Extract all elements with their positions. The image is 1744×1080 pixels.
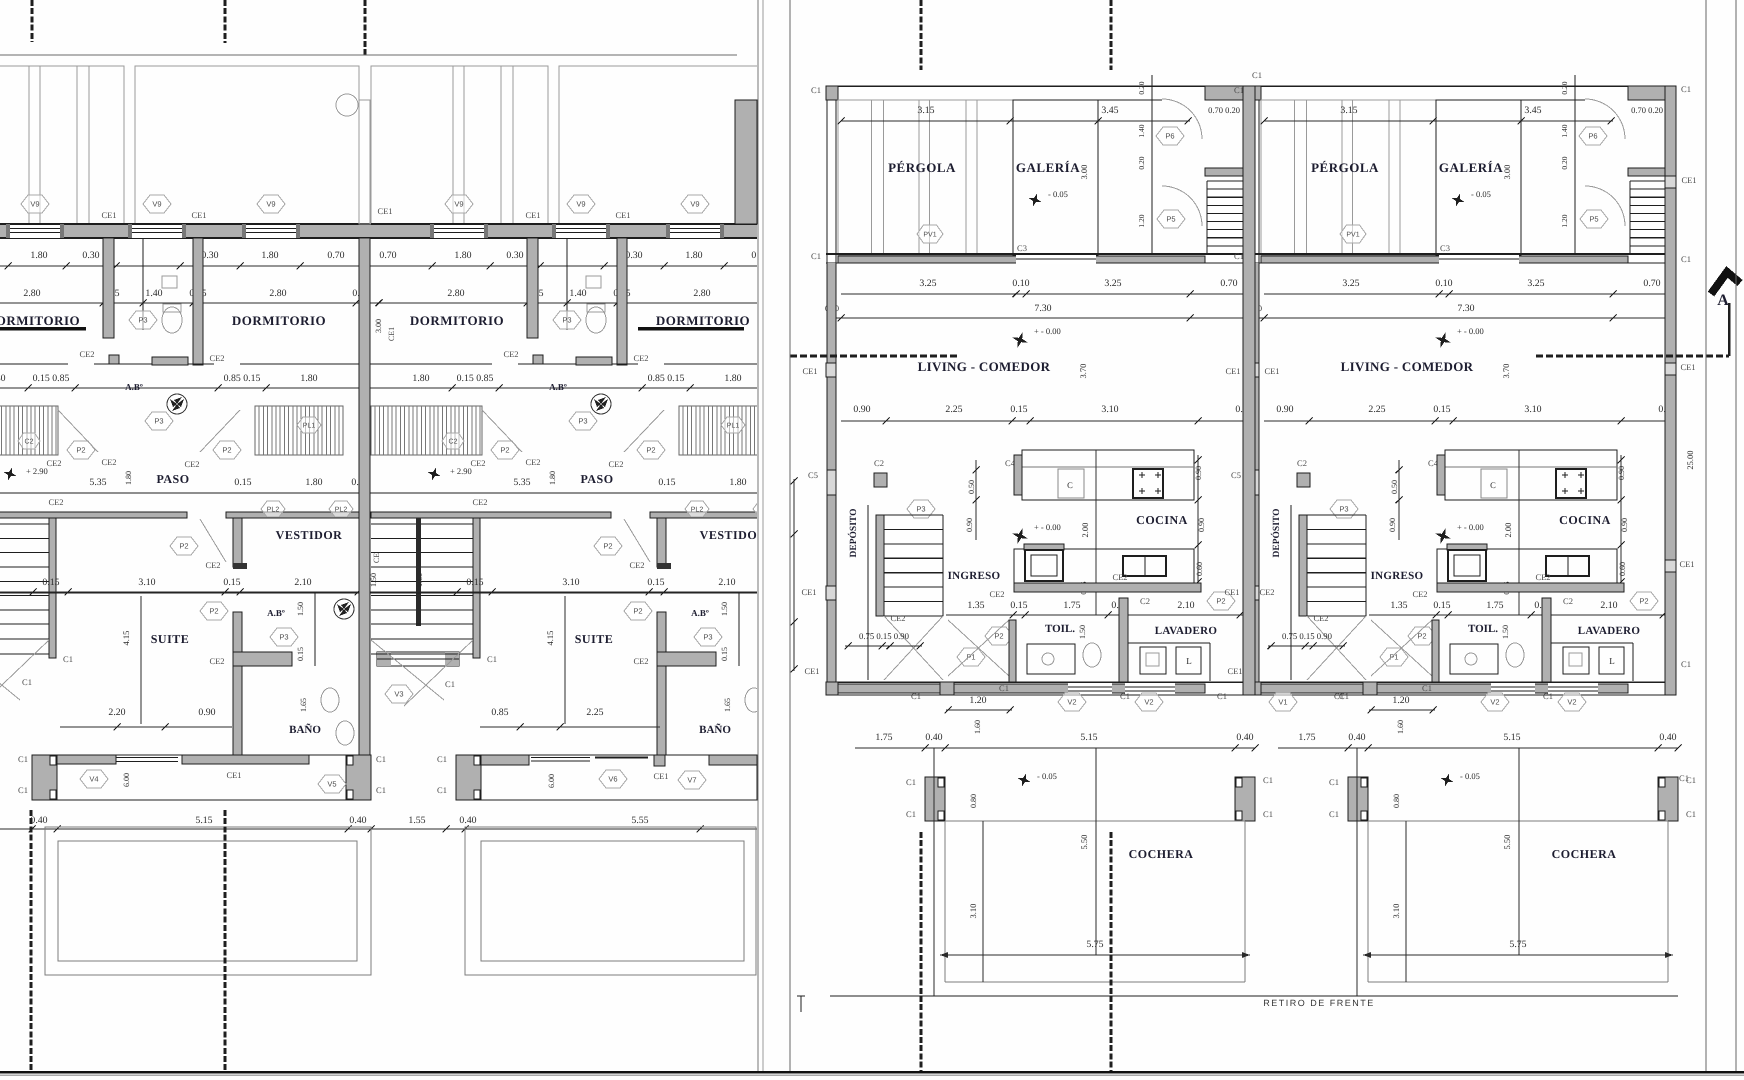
svg-text:0.15: 0.15 [466,577,483,588]
svg-text:1.80: 1.80 [548,471,557,485]
left dim column [793,479,795,671]
tag P5 [1157,210,1185,228]
vanity bar [657,652,716,666]
window V9 [131,225,183,238]
svg-text:3.25: 3.25 [1527,278,1544,289]
tag P3 [694,628,722,646]
level star [1010,526,1030,546]
svg-text:L: L [1609,656,1615,666]
svg-text:P3: P3 [916,505,925,514]
svg-text:0.90: 0.90 [1276,404,1293,415]
stair treads [1307,514,1366,516]
pergola beam [1294,100,1296,255]
rear wall seg [57,755,116,764]
dim ext line [1197,455,1199,585]
svg-text:DEPÓSITO: DEPÓSITO [847,509,859,558]
window glazing [245,228,297,230]
svg-text:3.00: 3.00 [1502,165,1512,180]
svg-text:DEPÓSITO: DEPÓSITO [1270,509,1282,558]
outer wall edge [835,100,837,695]
svg-text:DORMITORIO: DORMITORIO [0,313,80,328]
svg-text:C1: C1 [1329,809,1339,819]
svg-text:1.80: 1.80 [305,477,322,488]
svg-text:CE1: CE1 [1227,666,1242,676]
svg-text:2.80: 2.80 [693,288,710,299]
svg-text:0.90: 0.90 [1617,466,1626,480]
laundry box [1599,647,1624,674]
svg-text:V2: V2 [1490,698,1499,707]
svg-text:P2: P2 [76,446,85,455]
wall bar [371,512,611,518]
bottom window [1068,683,1112,694]
floor line [0,492,371,494]
svg-text:0.90: 0.90 [853,404,870,415]
svg-text:1.65: 1.65 [299,698,308,712]
bottom window2 [1548,683,1598,694]
dim line arrows [855,747,1255,749]
window V9 [669,225,721,238]
window jamb [606,224,610,238]
svg-text:PL1: PL1 [303,423,316,430]
svg-text:1.50: 1.50 [1501,625,1510,639]
svg-text:5.35: 5.35 [89,477,106,488]
dim line [0,302,371,304]
stair wall [876,515,884,616]
svg-text:V1: V1 [1278,698,1287,707]
tag PL2 [329,501,353,517]
entry stair side [1206,181,1208,254]
svg-text:A.Bº: A.Bº [549,382,567,392]
svg-text:PL2: PL2 [691,507,704,514]
tag V9 [567,195,595,213]
counter front line [1445,466,1617,468]
terrace roof outline [559,66,783,224]
svg-text:CE1: CE1 [1679,559,1694,569]
stair shaft line [76,66,78,224]
door swing P5 [1585,186,1625,226]
window jamb [60,224,64,238]
svg-text:CE2: CE2 [1412,589,1427,599]
svg-text:C1: C1 [1263,775,1273,785]
level star [1010,330,1030,350]
left sheet edge2 [762,0,764,1072]
svg-text:+ 2.90: + 2.90 [26,466,48,476]
pillar [346,755,371,800]
window glazing [245,232,297,234]
wall stub [1297,473,1310,487]
fan symbol [167,394,187,414]
retiro tick [797,995,805,997]
svg-text:7.30: 7.30 [1034,303,1051,314]
svg-text:C5: C5 [1231,470,1241,480]
bottom wall line [826,694,1250,696]
door swing P6 [1585,99,1625,139]
level star [1015,771,1033,789]
svg-text:P2: P2 [1216,597,1225,606]
svg-text:V9: V9 [576,200,585,209]
bottom wall line [1249,681,1673,683]
front door gap [1016,255,1096,264]
svg-text:0.15: 0.15 [658,477,675,488]
stair shaft line [463,66,465,224]
tag P2 lavadero [1207,592,1235,610]
patio inner [58,841,357,961]
tag PL2 [261,501,285,517]
svg-text:L: L [1186,656,1192,666]
svg-text:COCHERA: COCHERA [1552,847,1617,861]
pergola beam [1341,100,1343,255]
top wall line [826,85,1250,87]
stair lower treads [371,623,473,625]
svg-text:C1: C1 [999,683,1009,693]
corner block [1249,682,1261,695]
svg-text:0.40: 0.40 [30,815,47,826]
level star [1449,191,1467,209]
dim line [480,726,660,728]
svg-text:C2: C2 [874,458,884,468]
room divider [0,363,68,365]
section line A right [1536,355,1729,358]
pillar [456,755,481,800]
svg-text:0.20: 0.20 [1560,156,1569,169]
outer wall [827,263,836,695]
svg-text:1.20: 1.20 [969,695,986,706]
window jamb [484,224,488,238]
dim line [0,828,757,830]
svg-text:0.15: 0.15 [1010,600,1027,611]
svg-text:0.30: 0.30 [506,250,523,261]
wall bar [0,512,187,518]
svg-text:0.15 0.85: 0.15 0.85 [457,373,494,384]
stove [1133,469,1163,498]
svg-text:5.35: 5.35 [513,477,530,488]
svg-text:+ - 0.00: + - 0.00 [1034,522,1061,532]
passage window [377,652,459,666]
dim ext 2.00 [1095,450,1097,615]
svg-text:CE1: CE1 [802,366,817,376]
vestidor wall [657,518,666,567]
washer [1563,647,1589,674]
door swing [948,620,1009,676]
svg-text:C1: C1 [18,754,28,764]
window jamb [552,224,556,238]
svg-text:P2: P2 [994,632,1003,641]
door swing [624,519,650,562]
svg-text:CE2: CE2 [101,457,116,467]
svg-text:P3: P3 [1339,505,1348,514]
wall stub [874,473,887,487]
window glazing [9,232,61,234]
svg-text:1.50: 1.50 [1078,625,1087,639]
svg-text:CE1: CE1 [387,327,396,341]
top boundary line [0,54,737,56]
svg-text:CE2: CE2 [205,560,220,570]
svg-text:3.00: 3.00 [1079,165,1089,180]
stair wall [1299,515,1307,616]
svg-text:COCINA: COCINA [1136,513,1188,527]
svg-text:1.80: 1.80 [729,477,746,488]
svg-text:P6: P6 [1165,132,1174,141]
svg-text:1.75: 1.75 [1063,600,1080,611]
tag V2 [1558,693,1586,711]
room divider [94,363,214,365]
svg-text:P2: P2 [500,446,509,455]
svg-text:GALERÍA: GALERÍA [1016,160,1080,175]
svg-text:CE1: CE1 [653,771,668,781]
window glazing [669,232,721,234]
bottom window2 lines [1125,686,1175,688]
laundry box [1176,647,1201,674]
section bar [223,0,226,43]
svg-text:1.50: 1.50 [296,602,305,616]
toil wall [1009,620,1016,682]
svg-text:P5: P5 [1166,215,1175,224]
svg-text:0.60: 0.60 [1195,562,1204,576]
corner block [1363,682,1377,695]
svg-text:PV1: PV1 [1346,232,1359,239]
window jamb [296,224,300,238]
svg-text:1.40: 1.40 [1137,124,1146,137]
tag P3 [129,311,157,329]
fan symbol [591,394,611,414]
svg-text:0.30: 0.30 [201,250,218,261]
entry mid wall [1628,168,1673,176]
unit 2 ground-floor [1224,75,1696,996]
stair diag [371,640,444,700]
svg-text:C3: C3 [1440,243,1450,253]
wall bar [650,512,795,518]
front wall [1261,256,1628,263]
svg-text:0.85 0.15: 0.85 0.15 [648,373,685,384]
window glazing [131,232,183,234]
svg-text:RETIRO DE FRENTE: RETIRO DE FRENTE [1263,998,1375,1008]
tag P6 [1156,127,1184,145]
svg-text:0.70: 0.70 [379,250,396,261]
svg-text:CE2: CE2 [79,349,94,359]
svg-text:C1: C1 [376,785,386,795]
cochera bottom [945,981,1245,983]
door swing [1371,620,1432,676]
dim ext line [975,460,977,540]
svg-text:P3: P3 [279,633,288,642]
svg-text:VESTIDOR: VESTIDOR [276,528,343,542]
closet hatch [0,406,58,455]
pergola box [1261,100,1436,255]
window glazing [131,228,183,230]
dim line [0,387,371,389]
svg-text:1.50: 1.50 [720,602,729,616]
svg-text:DORMITORIO: DORMITORIO [232,313,326,328]
section bar [30,0,33,42]
svg-text:7.30: 7.30 [1457,303,1474,314]
svg-text:2.25: 2.25 [1368,404,1385,415]
terrace roof outline [0,66,124,224]
bottom wall line [1249,694,1673,696]
svg-text:CE1: CE1 [804,666,819,676]
bottom street line [0,1071,1744,1074]
svg-text:2.00: 2.00 [1503,523,1513,538]
mid band [1437,583,1624,592]
svg-text:CE2: CE2 [209,656,224,666]
svg-text:P1: P1 [1389,653,1398,662]
svg-text:6.00: 6.00 [547,774,556,788]
window jamb [182,224,186,238]
dim ext line [1398,460,1400,540]
pergola beam [1352,100,1354,255]
C box [1481,469,1507,498]
svg-text:3.25: 3.25 [1342,278,1359,289]
dim line [371,265,795,267]
svg-text:PL1: PL1 [727,423,740,430]
ext line [1518,748,1520,955]
ext line [933,748,935,996]
svg-text:+ - 0.00: + - 0.00 [1457,326,1484,336]
svg-text:0.15: 0.15 [42,577,59,588]
cochera top line [945,820,1245,822]
svg-text:3.10: 3.10 [1524,404,1541,415]
window glazing [433,228,485,230]
tag V3 [809,685,837,703]
svg-text:5.15: 5.15 [1503,732,1520,743]
svg-text:0.10: 0.10 [1435,278,1452,289]
tag P2 [170,537,198,555]
bottom window lines [1491,686,1535,688]
svg-text:CE2: CE2 [525,457,540,467]
tag V2 [1135,693,1163,711]
dim ext line [140,596,142,724]
tag V9 [21,195,49,213]
mini dim [1369,709,1435,711]
svg-text:V2: V2 [1567,698,1576,707]
tag C2 [18,433,40,449]
stair shaft line [39,66,41,224]
bath wall [738,593,740,666]
svg-text:CE2: CE2 [633,353,648,363]
tag P2 [213,441,241,459]
room divider [371,363,492,365]
svg-text:C1: C1 [1686,809,1696,819]
mid band [1014,583,1201,592]
svg-text:P2: P2 [603,542,612,551]
svg-text:CE1: CE1 [801,587,816,597]
svg-text:0.70 0.20: 0.70 0.20 [1208,105,1240,115]
tag P3 [553,311,581,329]
svg-text:P3: P3 [703,633,712,642]
svg-text:CE2: CE2 [472,497,487,507]
svg-text:SUITE: SUITE [151,632,190,646]
wall joint [1249,363,1259,377]
svg-text:0.40: 0.40 [1236,732,1253,743]
rear wall seg [182,755,309,764]
svg-text:2.20: 2.20 [108,707,125,718]
kitchen counter [1445,450,1617,500]
svg-text:CE2: CE2 [890,613,905,623]
counter end [1437,455,1445,495]
bottom window [1491,683,1535,694]
wall joint [826,586,836,600]
tag V2 [1058,693,1086,711]
fridge top bar [1024,544,1064,550]
svg-text:1.65: 1.65 [723,698,732,712]
svg-text:1.80: 1.80 [261,250,278,261]
dim ext 2.00 [1518,450,1520,615]
svg-text:4.15: 4.15 [121,631,131,646]
svg-text:C1: C1 [1120,691,1130,701]
entry stair [1207,180,1247,182]
tag P2 [985,627,1013,645]
pergola beam [883,100,885,255]
svg-text:PL2: PL2 [335,507,348,514]
front wall line [826,253,1250,255]
svg-text:1.80: 1.80 [124,471,133,485]
stair wall [473,518,480,658]
right sheet edge [1705,0,1707,1072]
svg-text:C1: C1 [1422,683,1432,693]
bidet [760,721,778,745]
dim line [841,293,1245,295]
pillar [32,755,57,800]
svg-text:V5: V5 [327,780,336,789]
svg-text:2.25: 2.25 [945,404,962,415]
toil wall [1432,620,1439,682]
svg-text:CE2: CE2 [48,497,63,507]
passage window [801,652,883,666]
pergola beam [1306,100,1308,255]
tag V9 [445,195,473,213]
patio outer [465,827,756,975]
svg-text:1.80: 1.80 [454,250,471,261]
top wall line [1249,99,1585,101]
front wall line [1249,253,1673,255]
svg-text:V9: V9 [454,200,463,209]
bath toilet [586,307,606,333]
pillar [925,777,945,821]
svg-text:0.40: 0.40 [1659,732,1676,743]
svg-text:0.20: 0.20 [1137,156,1146,169]
stair rail [416,518,421,626]
stair diag [0,640,49,706]
outer wall edge [1249,100,1251,695]
svg-text:1.60: 1.60 [1396,720,1405,734]
wall stub [109,355,119,364]
svg-text:C1: C1 [1329,777,1339,787]
svg-text:V4: V4 [89,775,98,784]
section line A [790,355,958,358]
tag P2 [200,602,228,620]
lavadero counter line [1551,642,1633,644]
svg-text:2.80: 2.80 [269,288,286,299]
svg-text:C1: C1 [1234,85,1244,95]
closet hatch [371,406,482,455]
svg-text:0.70: 0.70 [1220,278,1237,289]
tag PV1 [917,225,943,243]
svg-text:C1: C1 [1681,84,1691,94]
retiro line [830,995,1678,997]
fan symbol [334,599,354,619]
svg-text:INGRESO: INGRESO [948,570,1001,582]
lavadero partition [1632,643,1634,681]
tag P2 [67,441,95,459]
svg-text:CE1: CE1 [525,210,540,220]
party wall [1243,86,1255,695]
svg-text:- 0.05: - 0.05 [1471,189,1491,199]
toil sink [1450,644,1498,674]
pillar [1348,777,1368,821]
svg-text:V3: V3 [394,690,403,699]
tag V7 [678,771,706,789]
bottom wall [1261,684,1628,693]
svg-text:3.10: 3.10 [562,577,579,588]
